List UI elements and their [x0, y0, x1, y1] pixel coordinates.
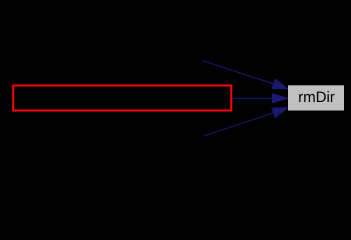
wire edge2 (red box to rmDir)	[232, 94, 287, 103]
node truncated-caller (red box)	[13, 86, 231, 111]
label rmDir	[299, 91, 334, 102]
node rmDir (gray box)	[288, 85, 344, 110]
wire edge1 (top caller to rmDir)	[203, 61, 287, 89]
wire edge3 (bottom caller to rmDir)	[203, 108, 287, 136]
